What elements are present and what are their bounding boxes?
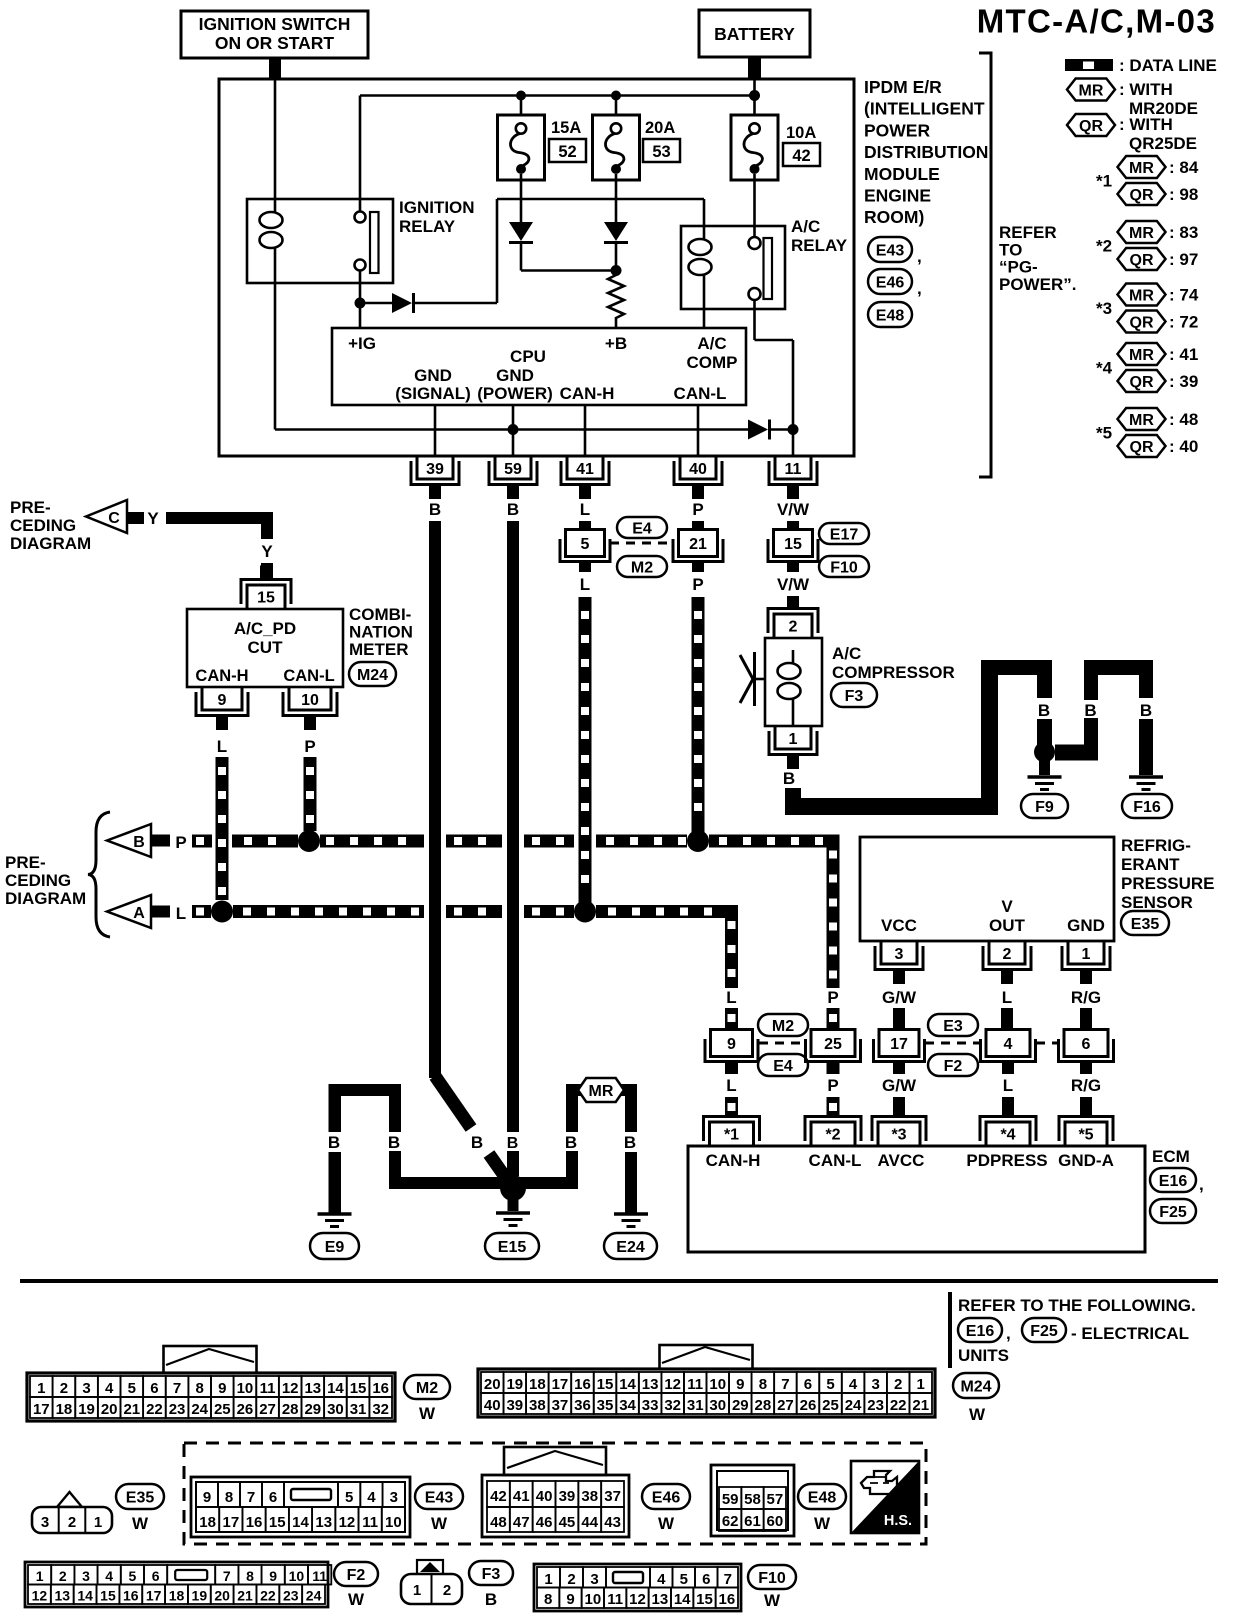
svg-text:14: 14 [77,1588,93,1604]
svg-text:(INTELLIGENT: (INTELLIGENT [864,99,985,119]
labels L P G/W L R/G below connectors [726,1076,1101,1095]
svg-text:GND: GND [414,366,452,385]
svg-text:3: 3 [590,1571,598,1588]
wire diode1 to node [521,269,616,272]
meter connector 10 [289,687,331,710]
svg-text:15: 15 [100,1588,116,1604]
data line P from connector 21 [692,597,705,832]
svg-text:3: 3 [82,1380,90,1397]
IPDM connector 59 [495,456,531,479]
svg-text:10: 10 [301,692,319,709]
brace [88,812,110,937]
svg-text:24: 24 [845,1397,862,1414]
svg-text:15: 15 [597,1376,614,1393]
svg-text:RELAY: RELAY [791,236,848,255]
svg-text:B: B [133,834,145,851]
node IPDM CAN-H joins data line [574,901,596,923]
svg-text:B: B [783,769,795,788]
M2 oval [758,1014,808,1036]
IPDM connector 39 [417,456,453,479]
svg-text:L: L [580,575,590,594]
svg-text:,: , [1199,1175,1204,1194]
svg-text:8: 8 [759,1376,767,1393]
data line stubs into connectors [725,1008,840,1030]
svg-text:V/W: V/W [777,575,810,594]
ECM pin *3 [878,1122,920,1146]
svg-text:QR: QR [1130,314,1154,331]
svg-text:23: 23 [169,1401,186,1418]
svg-text:C: C [108,510,120,527]
svg-text:16: 16 [574,1376,591,1393]
F2 oval label [334,1562,378,1586]
svg-text:28: 28 [755,1397,772,1414]
arrow C [86,500,127,533]
svg-text:24: 24 [191,1401,208,1418]
svg-text:QR: QR [1130,374,1154,391]
svg-text:17: 17 [33,1401,50,1418]
data line 1 corner down to connector 25 [827,835,840,989]
H.S. logo [851,1461,919,1533]
CPU pin wires to IPDM connectors [435,405,698,456]
svg-text:W: W [658,1514,675,1533]
svg-text:12: 12 [32,1588,48,1604]
svg-text:5: 5 [129,1568,137,1584]
svg-text:L: L [726,988,736,1007]
wire V/W from 11 to connector 15 [787,521,799,531]
svg-text:QR: QR [1130,187,1154,204]
E17 oval [819,523,869,544]
connector F3 pinout [401,1560,462,1604]
wire Y horizontal [166,512,273,524]
connector E48 pinout [711,1465,794,1536]
svg-text:21: 21 [237,1588,253,1604]
svg-text:B: B [388,1133,400,1152]
svg-text:: 83: : 83 [1169,223,1198,242]
svg-text:CPU: CPU [510,347,546,366]
sensor connector 1 [1068,941,1104,964]
data line legend sample [1065,56,1217,75]
svg-text:: 97: : 97 [1169,250,1198,269]
B labels at F9 junction [1038,701,1152,720]
jumper to F16 loop [1055,660,1153,775]
svg-text:POWER: POWER [864,120,930,140]
svg-text:B: B [1084,701,1096,720]
compressor clutch symbol [740,652,765,706]
svg-text:39: 39 [559,1488,576,1505]
dashed link 17 to 4 [925,1042,981,1045]
svg-text:17: 17 [890,1036,908,1053]
wire B from 39 [429,521,441,1078]
svg-text:E16: E16 [1159,1173,1188,1190]
wires 17/4/6 down [893,1062,1092,1074]
svg-text:W: W [969,1405,986,1424]
svg-text:L: L [580,500,590,519]
svg-text:5: 5 [680,1571,688,1588]
svg-text:UNITS: UNITS [958,1346,1009,1365]
svg-text:QR25DE: QR25DE [1129,134,1197,153]
svg-text:,: , [917,247,922,266]
svg-text:61: 61 [744,1513,761,1530]
svg-text:*5: *5 [1096,424,1112,443]
svg-text:26: 26 [237,1401,254,1418]
svg-text:38: 38 [529,1397,546,1414]
svg-text:COMBI-: COMBI- [349,605,411,624]
svg-text:7: 7 [247,1489,255,1506]
svg-text:ENGINE: ENGINE [864,186,931,206]
wire V/W to compressor [787,596,799,610]
svg-text:5: 5 [128,1380,136,1397]
B labels ground cluster [328,1133,636,1152]
legend row *5 QR [1118,435,1199,457]
svg-text:45: 45 [559,1514,576,1531]
svg-text:9: 9 [218,692,227,709]
svg-text:B: B [328,1133,340,1152]
svg-text:F10: F10 [830,559,858,576]
data line 2 (CAN-H) [192,905,738,918]
svg-text:CEDING: CEDING [10,516,76,535]
svg-text:2: 2 [789,619,798,636]
svg-text:E43: E43 [425,1489,454,1506]
ECM pin *4 [986,1122,1030,1146]
data line stubs below 9 and 25 [725,1062,840,1074]
fuse 20A 53 [593,115,640,180]
svg-text:10: 10 [584,1591,601,1608]
svg-text:1: 1 [37,1380,45,1397]
E4 oval [617,517,667,538]
svg-text:17: 17 [222,1514,239,1531]
svg-text:E35: E35 [1131,916,1160,933]
labels G/W L R/G [882,988,1101,1007]
meter connector 9 [202,687,242,710]
wire node to ground E15 [508,1199,519,1211]
svg-text:AVCC: AVCC [878,1151,925,1170]
wire fuse1 to diode [520,174,523,222]
svg-text:1: 1 [1082,946,1091,963]
svg-text:12: 12 [339,1514,356,1531]
ignition switch box [181,11,368,79]
svg-text:P: P [304,737,315,756]
svg-text:METER: METER [349,640,409,659]
data line 2 stub and L label [151,906,170,918]
svg-text:39: 39 [506,1397,523,1414]
svg-text:16: 16 [718,1591,735,1608]
ignition relay [247,199,393,283]
svg-text:1: 1 [94,1514,102,1531]
svg-text:*1: *1 [1096,172,1112,191]
E4 oval [758,1054,808,1076]
wire fuse2 to diode [615,174,618,222]
labels L P V/W below connectors [579,562,810,594]
node meter CAN-L joins data line [298,830,320,852]
E15 oval [485,1233,539,1259]
svg-text:: 39: : 39 [1169,372,1198,391]
svg-text:COMPRESSOR: COMPRESSOR [832,663,955,682]
svg-text:F2: F2 [347,1567,366,1584]
A/C compressor label [832,644,955,682]
svg-text:4: 4 [849,1376,858,1393]
data line 1 (CAN-L) [192,835,840,848]
svg-text:15A: 15A [551,119,581,137]
svg-text:W: W [814,1514,831,1533]
wire A/C relay coil to CPU A/C COMP [703,309,706,328]
svg-text:E48: E48 [808,1489,837,1506]
wire color labels below IPDM [429,500,810,519]
svg-text:6: 6 [150,1380,158,1397]
IPDM label block [864,77,988,227]
E46 oval label [642,1484,690,1509]
svg-text:46: 46 [536,1514,553,1531]
svg-text:21: 21 [123,1401,140,1418]
E35 oval label [116,1484,164,1509]
E24 oval [604,1233,657,1259]
svg-text:,: , [1006,1324,1011,1343]
IPDM connector 11 [775,456,811,479]
F10 oval label [748,1565,796,1589]
CPU pin labels [348,334,737,403]
svg-text:3: 3 [871,1376,879,1393]
svg-text:G/W: G/W [882,1076,917,1095]
svg-text:32: 32 [664,1397,681,1414]
svg-text:4: 4 [1004,1036,1013,1053]
dashed box around E43/E46/E48 [184,1443,926,1544]
svg-text:42: 42 [792,147,810,165]
diode under fuse 20A [604,222,628,241]
ground node E15 [500,1175,526,1201]
CPU box [332,328,746,405]
svg-text:9: 9 [269,1568,277,1584]
svg-text:CAN-L: CAN-L [809,1151,862,1170]
sensor label [1121,836,1215,912]
svg-text:BATTERY: BATTERY [714,24,795,44]
svg-text:: 74: : 74 [1169,286,1199,305]
compressor connector 1 [775,726,811,749]
E43 oval label [415,1484,463,1509]
svg-text:25: 25 [822,1397,839,1414]
svg-text:37: 37 [552,1397,569,1414]
svg-text:20: 20 [101,1401,118,1418]
svg-text:14: 14 [674,1591,691,1608]
svg-text:PRE-: PRE- [5,853,46,872]
svg-text:- ELECTRICAL: - ELECTRICAL [1071,1324,1189,1343]
diode at ignition relay output [392,293,412,313]
svg-text:10: 10 [709,1376,726,1393]
svg-text:32: 32 [372,1401,389,1418]
svg-text:15: 15 [257,590,275,607]
ground node F9 [1034,742,1055,763]
svg-text:REFRIG-: REFRIG- [1121,836,1191,855]
svg-text:15: 15 [350,1380,367,1397]
wire 10A fuse to A/C relay contact [753,174,756,237]
svg-text:18: 18 [529,1376,546,1393]
svg-text:F25: F25 [1030,1323,1058,1340]
svg-text:3: 3 [390,1489,398,1506]
F9 oval [1021,794,1068,818]
svg-text:B: B [429,500,441,519]
svg-text:15: 15 [784,536,802,553]
svg-text:B: B [485,1590,497,1609]
svg-text:(POWER): (POWER) [477,384,553,403]
svg-text:A/C_PD: A/C_PD [234,619,296,638]
E35 oval [1121,911,1169,935]
svg-text:SENSOR: SENSOR [1121,893,1193,912]
svg-text:MR: MR [1129,225,1154,242]
divider line [948,1292,952,1368]
svg-text:NATION: NATION [349,623,413,642]
svg-text:B: B [507,1135,519,1152]
connector E35 pinout [32,1492,112,1533]
svg-text:38: 38 [581,1488,598,1505]
svg-text:*2: *2 [825,1127,840,1144]
svg-text:9: 9 [218,1380,226,1397]
svg-text:31: 31 [687,1397,704,1414]
F25 oval bottom [1022,1318,1066,1342]
svg-text:MR: MR [1129,160,1154,177]
svg-text:ECM: ECM [1152,1147,1190,1166]
svg-text:V/W: V/W [777,500,810,519]
connector 4 [986,1030,1030,1057]
legend row *4 QR [1118,370,1199,392]
svg-text:E3: E3 [943,1018,963,1035]
E9 oval [310,1233,359,1259]
wire Y stub to meter [261,563,273,579]
E3 oval [928,1014,978,1036]
svg-text:29: 29 [732,1397,749,1414]
sensor connector 3 [881,941,917,964]
legend row *3 MR [1096,284,1199,319]
E16 oval [1150,1168,1196,1192]
svg-text:L: L [726,1076,736,1095]
svg-text:W: W [132,1514,149,1533]
svg-text:ROOM): ROOM) [864,207,924,227]
svg-text:16: 16 [246,1514,263,1531]
connector M2 pinout [27,1346,395,1421]
svg-text:A: A [133,905,145,922]
svg-text:M24: M24 [357,667,388,684]
M24 oval label [953,1373,999,1398]
svg-text:39: 39 [426,461,444,478]
F3 oval [831,683,877,707]
svg-text:16: 16 [372,1380,389,1397]
svg-text:L: L [1003,1076,1013,1095]
svg-text:11: 11 [312,1568,327,1584]
QR legend hexagon [1067,114,1197,153]
svg-text:F10: F10 [758,1570,786,1587]
labels L P below meter [217,737,316,756]
svg-text:41: 41 [513,1488,530,1505]
svg-text:QR: QR [1130,252,1154,269]
svg-text:E15: E15 [498,1239,527,1256]
svg-text:7: 7 [781,1376,789,1393]
svg-text:: DATA LINE: : DATA LINE [1119,56,1217,75]
data line L from connector 5 [579,597,592,905]
svg-text:15: 15 [696,1591,713,1608]
svg-text:B: B [1038,701,1050,720]
fuse 15A 52 [498,115,545,180]
svg-text:COMP: COMP [687,353,738,372]
arrow B [107,824,151,857]
svg-text:R/G: R/G [1071,1076,1101,1095]
svg-text:OUT: OUT [989,916,1026,935]
svg-text:A/C: A/C [697,334,726,353]
refer to PG-POWER bracket [979,53,991,477]
svg-text:28: 28 [282,1401,299,1418]
svg-text:,: , [917,279,922,298]
svg-text:13: 13 [651,1591,668,1608]
svg-text:Y: Y [261,542,273,561]
battery box [699,10,810,79]
svg-text:57: 57 [766,1491,783,1508]
svg-text:14: 14 [619,1376,636,1393]
svg-text:16: 16 [123,1588,139,1604]
wire P from 40 to connector 21 [692,521,704,531]
svg-text:M2: M2 [416,1380,438,1397]
compressor connector 2 [774,614,812,638]
svg-text:W: W [348,1590,365,1609]
resistor to +B [608,271,624,329]
svg-text:8: 8 [196,1380,204,1397]
arrow A [107,895,151,928]
svg-text:58: 58 [744,1491,761,1508]
svg-text:11: 11 [607,1591,623,1608]
svg-text:41: 41 [576,461,594,478]
svg-text:35: 35 [597,1397,614,1414]
svg-text:*5: *5 [1078,1127,1093,1144]
connector 21 [679,530,718,557]
svg-text:GND: GND [1067,916,1105,935]
svg-text:P: P [692,575,703,594]
svg-text:E46: E46 [876,274,905,291]
F25 oval [1150,1199,1196,1223]
svg-text:E46: E46 [652,1489,681,1506]
data line 1 stub and P label [151,835,170,847]
M24 oval [349,662,396,686]
dashed link 5 to 21 [610,542,672,545]
svg-text:4: 4 [657,1571,666,1588]
F2 oval [928,1054,978,1076]
svg-text:P: P [827,1076,838,1095]
F16 oval [1122,794,1172,818]
svg-text:12: 12 [282,1380,299,1397]
svg-text:2: 2 [894,1376,902,1393]
A/C relay [681,226,785,309]
svg-text:E43: E43 [876,242,905,259]
svg-text:59: 59 [722,1491,739,1508]
svg-text:19: 19 [78,1401,95,1418]
svg-text:RELAY: RELAY [399,217,456,236]
wire into ground node F9 [1037,719,1052,745]
E46 oval [868,269,912,294]
svg-text:10: 10 [385,1514,402,1531]
connector F2 pinout [25,1562,331,1607]
svg-text:POWER”.: POWER”. [999,275,1076,294]
svg-text:CEDING: CEDING [5,871,71,890]
svg-text:E4: E4 [773,1058,793,1075]
M2 oval label [404,1375,450,1399]
svg-text:Y: Y [147,509,159,528]
svg-text:CAN-H: CAN-H [706,1151,761,1170]
svg-text:GND: GND [496,366,534,385]
svg-text:18: 18 [169,1588,185,1604]
IPDM connector 40 [680,456,716,479]
svg-text:25: 25 [824,1036,842,1053]
svg-text:62: 62 [722,1513,739,1530]
svg-text:1: 1 [544,1571,552,1588]
svg-text:ON OR START: ON OR START [215,33,335,53]
svg-text:2: 2 [59,1568,67,1584]
svg-text:6: 6 [152,1568,160,1584]
svg-text:PDPRESS: PDPRESS [966,1151,1047,1170]
M2 oval [617,556,667,577]
